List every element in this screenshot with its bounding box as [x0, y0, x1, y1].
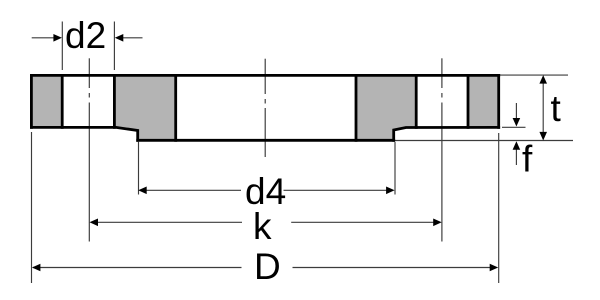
svg-text:d2: d2 — [65, 15, 106, 56]
svg-text:k: k — [253, 206, 272, 247]
svg-text:D: D — [254, 246, 281, 287]
svg-text:f: f — [522, 139, 533, 180]
svg-text:t: t — [551, 88, 562, 129]
